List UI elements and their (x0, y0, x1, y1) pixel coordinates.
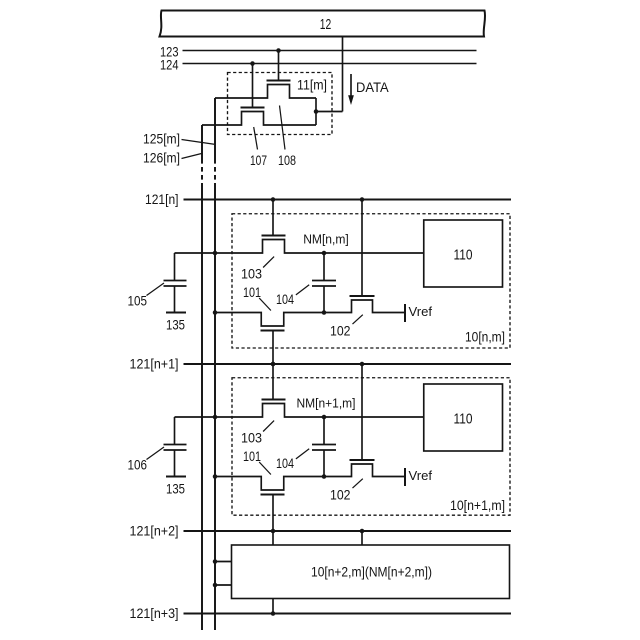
svg-text:124: 124 (160, 58, 179, 73)
svg-text:10[n+1,m]: 10[n+1,m] (450, 498, 505, 513)
svg-text:107: 107 (250, 153, 267, 168)
svg-text:121[n+3]: 121[n+3] (130, 606, 179, 621)
svg-text:NM[n+1,m]: NM[n+1,m] (297, 396, 356, 411)
svg-text:12: 12 (320, 17, 332, 33)
svg-text:Vref: Vref (409, 304, 433, 319)
svg-text:121[n+1]: 121[n+1] (130, 357, 179, 372)
svg-text:DATA: DATA (356, 80, 389, 95)
svg-text:102: 102 (330, 488, 351, 503)
svg-text:108: 108 (278, 153, 296, 168)
svg-text:110: 110 (454, 411, 473, 428)
svg-text:103: 103 (241, 267, 262, 282)
svg-text:Vref: Vref (409, 468, 433, 483)
svg-text:104: 104 (276, 292, 294, 307)
svg-text:101: 101 (243, 449, 261, 464)
svg-text:103: 103 (241, 431, 262, 446)
svg-text:105: 105 (128, 294, 148, 309)
svg-text:101: 101 (243, 285, 261, 300)
svg-text:10[n+2,m](NM[n+2,m]): 10[n+2,m](NM[n+2,m]) (311, 565, 432, 580)
svg-text:NM[n,m]: NM[n,m] (303, 232, 349, 247)
svg-text:121[n]: 121[n] (145, 192, 179, 207)
svg-text:102: 102 (330, 324, 351, 339)
svg-text:135: 135 (166, 318, 185, 333)
svg-text:135: 135 (166, 482, 185, 497)
svg-text:10[n,m]: 10[n,m] (465, 330, 505, 345)
svg-text:106: 106 (128, 458, 148, 473)
svg-text:11[m]: 11[m] (297, 78, 327, 93)
svg-text:110: 110 (454, 247, 473, 264)
svg-text:104: 104 (276, 456, 294, 471)
svg-text:125[m]: 125[m] (143, 132, 180, 147)
svg-text:121[n+2]: 121[n+2] (130, 524, 179, 539)
svg-text:126[m]: 126[m] (143, 151, 180, 166)
